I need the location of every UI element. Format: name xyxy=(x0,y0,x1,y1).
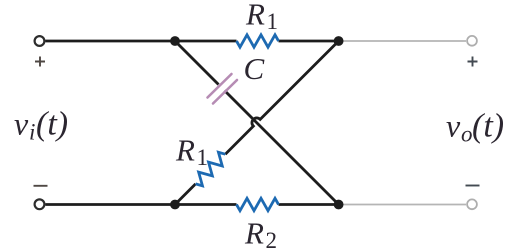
svg-text:1: 1 xyxy=(197,145,209,170)
capacitor C plate 1 xyxy=(208,74,232,98)
wire bottom-left xyxy=(46,203,237,206)
terminal top-right xyxy=(467,36,477,46)
wire top-mid-right xyxy=(279,40,339,43)
svg-text:2: 2 xyxy=(266,228,278,250)
wire diagonal R1 branch with hop xyxy=(175,41,339,205)
node bottom-left xyxy=(170,200,180,210)
svg-text:i: i xyxy=(29,120,35,145)
label minus bottom-left xyxy=(34,185,48,187)
terminal bottom-left xyxy=(35,199,45,209)
svg-text:(t): (t) xyxy=(36,106,68,143)
capacitor C plate 2 xyxy=(213,80,237,104)
label minus bottom-right xyxy=(466,185,480,187)
terminal top-left xyxy=(35,36,45,46)
svg-text:v: v xyxy=(14,106,29,142)
node bottom-right xyxy=(334,200,344,210)
wire diagonal capacitor branch upper xyxy=(175,41,219,85)
label plus top-left xyxy=(35,57,45,67)
resistor R1 diagonal xyxy=(191,150,229,188)
terminal bottom-right xyxy=(467,199,477,209)
resistor R1 top xyxy=(237,35,279,47)
svg-text:(t): (t) xyxy=(472,108,504,145)
svg-text:R: R xyxy=(244,216,264,250)
node top-left xyxy=(170,36,180,46)
svg-text:v: v xyxy=(446,108,461,144)
wire top-left xyxy=(46,40,237,43)
wire diagonal capacitor branch lower xyxy=(225,91,339,205)
wire bottom-right gray xyxy=(339,204,466,206)
svg-text:1: 1 xyxy=(267,9,279,34)
resistor R2 bottom xyxy=(237,198,279,210)
label plus top-right xyxy=(468,57,478,67)
svg-text:R: R xyxy=(175,133,195,168)
svg-text:o: o xyxy=(461,122,473,147)
wire bottom-mid-right xyxy=(279,203,339,206)
svg-text:R: R xyxy=(245,0,265,32)
wire top-right gray xyxy=(339,40,466,42)
svg-text:C: C xyxy=(244,51,265,86)
node top-right xyxy=(334,36,344,46)
